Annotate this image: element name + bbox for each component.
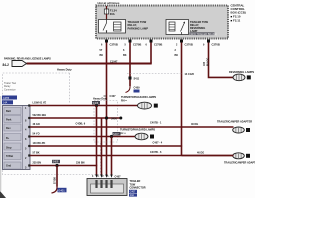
svg-text:G401: G401 xyxy=(58,188,65,192)
svg-text:C4DB, 9: C4DB, 9 xyxy=(76,123,86,126)
svg-text:Heavy Duty: Heavy Duty xyxy=(93,97,108,101)
svg-text:Hot at all times: Hot at all times xyxy=(98,1,120,5)
wire R1: park feed 61 YE xyxy=(30,105,138,107)
dashed harness box: heavy duty left region xyxy=(3,73,101,175)
svg-text:TrlBat: TrlBat xyxy=(6,155,13,158)
svg-text:Connector: Connector xyxy=(4,88,16,91)
pin nubs on connector rows xyxy=(28,104,30,166)
svg-text:235 BN: 235 BN xyxy=(33,162,42,165)
pin 87 connector C270B xyxy=(180,40,183,43)
svg-text:CONNECTOR: CONNECTOR xyxy=(130,187,146,190)
svg-text:Park: Park xyxy=(6,119,12,122)
wire v111: R4 to trailer connector pin 1 xyxy=(111,137,113,176)
splice S406 xyxy=(105,116,108,119)
svg-text:C407B - 1: C407B - 1 xyxy=(150,122,162,125)
svg-text:Stop: Stop xyxy=(6,147,12,150)
svg-text:PARKING LAMP: PARKING LAMP xyxy=(128,26,149,30)
svg-text:■ F2.11: ■ F2.11 xyxy=(231,19,241,23)
wire v96: R1 to trailer connector pin 4 xyxy=(96,106,98,176)
label: TRAILER TOW CONNECTOR xyxy=(130,180,146,190)
trailer tow connector C407 pins xyxy=(95,175,112,178)
value label: wire 183 BU-OG rotated xyxy=(203,58,210,66)
svg-text:BK: BK xyxy=(100,54,104,57)
value label: fuse F1.34 30A xyxy=(110,9,117,17)
svg-text:57 BK: 57 BK xyxy=(33,152,40,155)
connector code chips xyxy=(129,190,137,193)
value label: wire on V4 xyxy=(175,49,179,57)
svg-text:C407: C407 xyxy=(110,95,117,98)
page ref square upper adapter xyxy=(246,128,250,132)
label: TRAILER TOW RELAY REVERSING LAMP (W/O TRAILER BRAKE) xyxy=(190,20,209,33)
dashed divider xyxy=(69,73,71,103)
svg-text:C270B: C270B xyxy=(133,43,141,47)
wire: ground drop 57 BK xyxy=(56,166,58,187)
svg-text:46 GO: 46 GO xyxy=(33,123,40,126)
ground hook stub from S411 xyxy=(126,86,131,93)
svg-text:30A: 30A xyxy=(110,12,115,16)
value label: wire 57 BK on V1 xyxy=(100,49,104,57)
label: CENTRAL CONTROL BOX (CCB) xyxy=(231,4,246,23)
svg-text:40 DG: 40 DG xyxy=(197,152,204,155)
relay K2: trailer tow relay, reversing lamp xyxy=(166,20,189,35)
label: trailer tow connector block (in dashed box) xyxy=(4,82,16,91)
pin 86 connector C270B xyxy=(150,40,153,43)
pin numbers xyxy=(25,107,27,170)
svg-text:140 BK-PK: 140 BK-PK xyxy=(33,142,46,145)
relay K1: trailer tow relay, parking lamp xyxy=(99,20,126,34)
splice S407 xyxy=(110,135,113,138)
svg-text:(W/O TRAILER BRAKE): (W/O TRAILER BRAKE) xyxy=(190,33,217,36)
svg-text:REVERSING LAMPS: REVERSING LAMPS xyxy=(229,70,254,74)
connector capsule: trailer/camper adapter upper xyxy=(233,127,245,133)
off-page arrow: PARKING, REAR AND LICENSE LAMPS xyxy=(3,58,52,67)
svg-text:BU-OG: BU-OG xyxy=(207,58,210,66)
pin numbers for C407 xyxy=(92,175,109,178)
svg-text:57 BK: 57 BK xyxy=(54,177,57,184)
svg-text:TRAILER/CAMPER ADAPTER: TRAILER/CAMPER ADAPTER xyxy=(224,162,255,165)
dashed jumper line to C126 xyxy=(127,73,182,75)
label: TRAILER TOW RELAY PARKING LAMP xyxy=(128,20,149,30)
wire: feed from PARKING lamps arrow, horizontal xyxy=(27,63,152,65)
wire R3: 46 GO to trailer/camper adapter xyxy=(30,126,234,128)
wire: fuse to relay K1 xyxy=(106,14,108,20)
wire V6: reversing lamp feed to right xyxy=(209,43,234,78)
connector: trailer tow connector 4-pin block xyxy=(87,179,127,196)
wire R4: 54 YO to turn/stop LH xyxy=(30,136,135,138)
page ref square: turn/stop RH xyxy=(154,104,158,108)
svg-text:LG/M 61 YE: LG/M 61 YE xyxy=(33,102,47,105)
connector capsule: turn/stop LH xyxy=(135,133,148,140)
splice end dot on R2 xyxy=(119,117,122,120)
splice S411 xyxy=(129,77,132,80)
svg-text:C270B: C270B xyxy=(154,43,162,47)
svg-text:S411: S411 xyxy=(134,78,140,81)
svg-text:C407: C407 xyxy=(130,191,136,193)
page ref square: turn/stop LH xyxy=(150,135,154,139)
connector capsule: trailer/camper adapter lower xyxy=(233,153,245,159)
svg-text:RH ••: RH •• xyxy=(121,99,127,102)
connector capsule: turn/stop RH xyxy=(138,102,152,109)
connector capsule: reversing lamps xyxy=(233,74,245,81)
dashed box: heavy duty splice group xyxy=(94,101,118,143)
svg-text:BK: BK xyxy=(175,54,179,57)
svg-text:BK: BK xyxy=(123,54,127,57)
svg-text:183: 183 xyxy=(203,61,206,66)
splice S408 xyxy=(95,104,98,107)
svg-text:40 DG: 40 DG xyxy=(191,123,198,126)
wire R2: 502 BK-WH xyxy=(30,117,122,119)
value label: wire on V2 xyxy=(123,49,127,57)
svg-text:C4TB: C4TB xyxy=(3,97,10,100)
connector: trailer tow connector (7 pin block) xyxy=(3,106,31,170)
label: C409 at hook xyxy=(134,87,141,90)
wire V1: fused feed 57 BK down to trailer connector xyxy=(106,43,108,176)
page corner artifact xyxy=(0,191,6,198)
wire R5: 140 BK-PK ends at V4 xyxy=(30,145,182,147)
wire V4: reversing relay out, down to trailer/camper adapter row xyxy=(181,43,183,156)
svg-text:54 YO: 54 YO xyxy=(33,133,40,136)
wire: battery feed into fuse xyxy=(106,6,108,9)
svg-text:Batt: Batt xyxy=(6,110,11,113)
connector header chips C4TB xyxy=(2,96,17,100)
svg-text:B+: B+ xyxy=(6,137,10,140)
fuse F1.34 30A xyxy=(104,9,108,14)
pin 30 connector C270B xyxy=(105,40,108,43)
wire R6: 57 BK to trailer/camper adapter lower xyxy=(30,155,234,157)
svg-text:TRAILER/CAMPER ADAPTER: TRAILER/CAMPER ADAPTER xyxy=(217,121,252,124)
wire V2: relay coil wire to splice S411 xyxy=(129,43,131,87)
pin 87a connector C270B xyxy=(207,40,210,43)
svg-text:84-2: 84-2 xyxy=(3,63,10,67)
label: TURN/STOP/HAZARD LAMPS LH xyxy=(120,129,155,135)
pin name labels xyxy=(6,110,13,168)
connector C407 inline tick on V1 xyxy=(104,95,107,97)
pin 85 connector C270B xyxy=(129,40,132,43)
module box: Central Control Box (CCB) xyxy=(96,6,228,39)
svg-text:C270B: C270B xyxy=(212,43,220,47)
page ref square: reversing lamps xyxy=(247,75,251,79)
svg-text:C407B - 6: C407B - 6 xyxy=(150,151,162,154)
svg-text:PARKING, REAR AND LICENSE LAMP: PARKING, REAR AND LICENSE LAMPS xyxy=(4,58,51,61)
svg-text:14A: 14A xyxy=(3,102,8,105)
svg-text:C409: C409 xyxy=(134,87,141,90)
svg-text:S408: S408 xyxy=(93,102,99,105)
svg-text:F1.34: F1.34 xyxy=(110,9,117,13)
pin label cells xyxy=(4,108,21,170)
ground G401 hook xyxy=(52,187,58,194)
splice S409 xyxy=(55,164,58,167)
svg-text:236 BN: 236 BN xyxy=(76,162,85,165)
label: TURN/STOP/HAZARD LAMPS RH xyxy=(121,96,156,102)
page ref square lower adapter xyxy=(246,154,250,158)
scan edge smudge xyxy=(0,96,2,191)
svg-text:S409: S409 xyxy=(53,161,59,164)
svg-text:14 C126: 14 C126 xyxy=(185,73,195,76)
svg-text:C407 - 4: C407 - 4 xyxy=(153,141,163,144)
svg-text:C270B: C270B xyxy=(110,43,118,47)
page ref chip at hook xyxy=(134,90,140,93)
svg-text:C270B: C270B xyxy=(185,43,193,47)
svg-text:502 BK-WH: 502 BK-WH xyxy=(33,114,47,117)
svg-text:Gnd: Gnd xyxy=(6,165,11,168)
wire: V4 corner to adapter row xyxy=(182,155,234,157)
svg-text:14A: 14A xyxy=(130,194,135,197)
wire V3: relay K1 coil feed up from parking lamps feed xyxy=(150,43,152,64)
svg-text:Heavy Duty: Heavy Duty xyxy=(57,68,72,72)
svg-text:LH ••: LH •• xyxy=(120,132,126,135)
svg-text:Rev: Rev xyxy=(6,127,11,130)
svg-text:S407: S407 xyxy=(113,133,119,136)
ground label chip G401 xyxy=(58,188,67,193)
wire v101: R2 to trailer connector pin 3 xyxy=(101,118,103,176)
wire R7: 235 BN ground row xyxy=(30,165,97,167)
svg-text:S406: S406 xyxy=(111,117,117,120)
